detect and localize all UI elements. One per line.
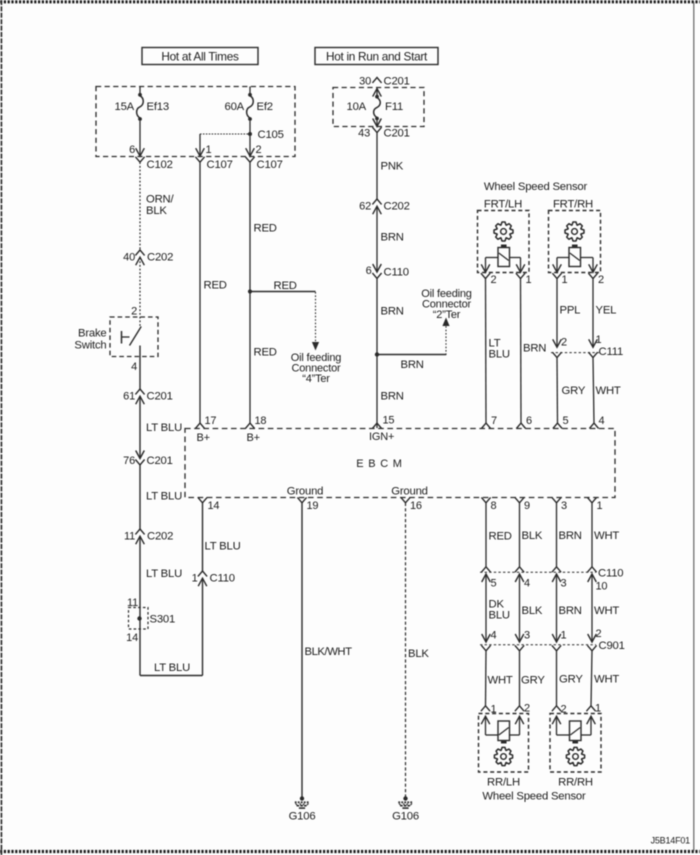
wire BLK to ground G106 <box>406 503 430 797</box>
wire LT BLU EBCM pin 14 to C110 <box>203 503 241 571</box>
svg-text:G106: G106 <box>392 810 419 822</box>
sensor FRT/RH dashed box <box>549 211 601 273</box>
svg-text:WHT: WHT <box>594 605 619 617</box>
svg-text:4: 4 <box>524 578 530 590</box>
connector C201 pin 30 <box>359 75 410 87</box>
svg-text:C110: C110 <box>598 568 623 580</box>
svg-text:C201: C201 <box>147 455 173 467</box>
svg-text:Ground: Ground <box>287 485 323 497</box>
wire LT BLU S301 to junction with pin 14 wire <box>140 629 203 676</box>
connector C110 pin 10 <box>588 574 608 593</box>
svg-text:C105: C105 <box>258 129 284 141</box>
svg-text:16: 16 <box>410 500 422 512</box>
connector C110 pin 6 <box>366 264 409 279</box>
module EBCM dashed box <box>185 429 615 498</box>
wire Ef13 to pin 6 <box>139 121 141 156</box>
svg-text:Switch: Switch <box>74 340 106 352</box>
wire GRY C901 to RR/RH pin 2 <box>552 645 583 705</box>
sensor FRT/RH pin 2 <box>588 273 604 286</box>
svg-text:RED: RED <box>274 280 297 292</box>
sensor RR/RH pin 1 <box>586 703 601 715</box>
svg-text:1: 1 <box>596 334 602 346</box>
wire BLK EBCM pin 9 to C110 <box>520 503 543 567</box>
pin 1 connector C107 <box>195 144 232 171</box>
wire LT BLU FRT/LH to EBCM pin 7 <box>486 279 510 424</box>
connector C110 dashed line lower <box>480 567 623 580</box>
svg-text:WHT: WHT <box>594 530 619 542</box>
label oil feeding connector 4 terminal <box>291 352 341 385</box>
svg-text:GRY: GRY <box>559 674 583 686</box>
svg-text:30: 30 <box>359 75 371 87</box>
svg-text:BRN: BRN <box>401 359 424 371</box>
svg-text:2: 2 <box>598 274 604 286</box>
svg-text:17: 17 <box>205 415 217 427</box>
svg-text:3: 3 <box>561 578 567 590</box>
wire WHT C901 to RR/LH pin 1 <box>481 645 513 705</box>
svg-text:RED: RED <box>204 280 227 292</box>
wire PNK F11 to C202 <box>377 133 404 199</box>
sensor RR/LH pin 2 <box>515 703 530 715</box>
svg-text:19: 19 <box>307 500 319 512</box>
svg-text:LT BLU: LT BLU <box>205 541 241 553</box>
svg-text:BLK: BLK <box>146 205 167 217</box>
svg-text:10: 10 <box>596 581 608 593</box>
svg-text:BLK/WHT: BLK/WHT <box>305 646 353 658</box>
connector C201 pin 61 <box>123 389 173 404</box>
svg-text:3: 3 <box>524 630 530 642</box>
svg-text:C202: C202 <box>384 201 410 213</box>
wire WHT C111 to EBCM pin 4 <box>588 352 621 423</box>
svg-text:PPL: PPL <box>560 305 581 317</box>
svg-text:BRN: BRN <box>559 605 582 617</box>
svg-text:BRN: BRN <box>559 530 582 542</box>
svg-text:6: 6 <box>526 415 532 427</box>
svg-text:B+: B+ <box>247 432 260 444</box>
wire LT BLU C201 to C201 <box>140 396 182 458</box>
svg-text:B+: B+ <box>197 432 210 444</box>
junction node on B+ wire <box>248 289 252 293</box>
svg-text:C110: C110 <box>384 267 409 279</box>
svg-text:1: 1 <box>192 573 198 585</box>
ground G106 left <box>289 796 316 822</box>
svg-text:C202: C202 <box>147 252 173 264</box>
wire C105 branch to pin 1 <box>200 134 248 156</box>
svg-text:BLK: BLK <box>408 648 429 660</box>
label oil feeding connector 2 terminal <box>421 288 471 321</box>
svg-text:F11: F11 <box>385 101 403 113</box>
svg-text:LT BLU: LT BLU <box>146 491 182 503</box>
svg-text:4: 4 <box>491 630 497 642</box>
svg-text:Hot at All Times: Hot at All Times <box>161 49 239 63</box>
sensor FRT/RH gear and coil <box>553 222 598 272</box>
svg-text:C901: C901 <box>599 640 625 652</box>
EBCM pin 18 B+ <box>245 415 266 444</box>
wire LT BLU C202 to splice S301 <box>140 536 182 607</box>
svg-text:1: 1 <box>561 630 567 642</box>
EBCM pin 17 B+ <box>195 415 216 444</box>
connector C111 dashed line <box>551 346 623 358</box>
connector C901 pin 4 <box>482 630 497 643</box>
svg-text:4: 4 <box>131 361 137 373</box>
svg-text:6: 6 <box>129 144 135 156</box>
wire LT BLU C201 to C202 <box>140 465 182 529</box>
svg-text:Wheel Speed Sensor: Wheel Speed Sensor <box>482 791 586 803</box>
wire WHT C901 to RR/RH pin 1 <box>587 645 619 705</box>
svg-text:Brake: Brake <box>78 328 107 340</box>
ground G106 right <box>392 796 419 822</box>
fuse Ef13 15A <box>114 87 168 121</box>
EBCM pin 8 <box>481 497 496 512</box>
connector C110 pin 5 <box>482 574 497 590</box>
sensor RR/RH coil and gear <box>552 716 595 765</box>
svg-text:WHT: WHT <box>596 385 621 397</box>
svg-text:BLU: BLU <box>489 349 510 361</box>
svg-text:RR/RH: RR/RH <box>558 776 593 788</box>
fuse block dashed box <box>96 87 295 157</box>
svg-text:61: 61 <box>123 391 135 403</box>
svg-text:WHT: WHT <box>594 674 619 686</box>
pin 2 connector C107 <box>245 144 282 171</box>
svg-text:BRN: BRN <box>381 306 404 318</box>
svg-text:FRT/LH: FRT/LH <box>484 199 522 211</box>
svg-text:“2”Ter: “2”Ter <box>433 309 461 321</box>
svg-text:Ground: Ground <box>391 485 427 497</box>
wire BLK C110 to C901 <box>520 574 543 642</box>
svg-text:6: 6 <box>366 265 372 277</box>
branch wire BRN to oil feeding connector 2 <box>377 318 450 372</box>
sensor FRT/LH gear and coil <box>481 222 525 272</box>
svg-text:2: 2 <box>491 274 497 286</box>
svg-text:J5B14F01: J5B14F01 <box>651 836 691 846</box>
svg-text:18: 18 <box>255 415 267 427</box>
EBCM pin 4 <box>589 415 604 429</box>
wire PPL FRT/RH to C111 <box>557 279 580 347</box>
EBCM pin 6 <box>516 415 532 429</box>
wire Ef2 to node C105 <box>249 121 251 134</box>
splice S301 <box>126 597 175 644</box>
wire BLK/WHT to ground G106 <box>302 503 352 797</box>
connector C901 pin 3 <box>515 630 530 643</box>
svg-text:“4”Ter: “4”Ter <box>302 373 330 385</box>
connector C202 pin 11 <box>124 529 173 544</box>
wire RED junction to EBCM pin 18 <box>250 294 277 424</box>
svg-text:C111: C111 <box>599 346 624 358</box>
wire C105 to pin 2 <box>249 136 251 156</box>
svg-text:C107: C107 <box>207 159 233 171</box>
wire BRN C202 to C110 <box>377 207 404 272</box>
sensor RR/RH dashed box <box>550 714 601 773</box>
svg-text:14: 14 <box>126 632 138 644</box>
sensor FRT/LH pin 2 <box>481 273 497 286</box>
svg-text:C201: C201 <box>384 75 410 87</box>
svg-text:Wheel Speed Sensor: Wheel Speed Sensor <box>484 181 588 193</box>
svg-text:YEL: YEL <box>596 305 617 317</box>
wire BRN C110 to C901 <box>557 574 582 642</box>
svg-text:5: 5 <box>491 578 497 590</box>
svg-text:9: 9 <box>524 500 530 512</box>
connector C901 dashed line <box>480 640 625 652</box>
svg-text:40: 40 <box>123 252 135 264</box>
svg-text:5: 5 <box>563 415 569 427</box>
svg-text:C201: C201 <box>384 128 410 140</box>
svg-text:C201: C201 <box>147 391 173 403</box>
wire BRN C110 to junction <box>377 278 404 428</box>
svg-text:LT BLU: LT BLU <box>146 422 182 434</box>
svg-text:LT BLU: LT BLU <box>146 568 182 580</box>
svg-text:1: 1 <box>597 500 603 512</box>
connector C202 pin 40 <box>123 250 173 265</box>
svg-text:76: 76 <box>123 455 135 467</box>
EBCM pin 1 <box>587 497 602 512</box>
junction node on IGN wire <box>375 352 379 356</box>
branch wire RED to oil feeding connector 4 <box>250 280 319 351</box>
svg-text:PNK: PNK <box>381 161 404 173</box>
svg-text:1: 1 <box>206 144 212 156</box>
svg-text:1: 1 <box>526 274 532 286</box>
svg-text:2: 2 <box>131 305 137 317</box>
svg-text:IGN+: IGN+ <box>369 431 394 443</box>
svg-text:Ef2: Ef2 <box>257 101 273 113</box>
svg-text:7: 7 <box>491 415 497 427</box>
svg-text:11: 11 <box>124 531 135 543</box>
connector C901 pin 2 <box>588 628 602 642</box>
svg-text:BLK: BLK <box>522 530 543 542</box>
connector C110 pin 4 <box>515 574 530 590</box>
node C105 junction <box>248 129 284 141</box>
svg-text:C102: C102 <box>147 159 173 171</box>
svg-text:14: 14 <box>208 500 220 512</box>
svg-text:8: 8 <box>491 500 497 512</box>
svg-text:Hot in Run and Start: Hot in Run and Start <box>326 49 428 63</box>
fuse block F11 dashed box <box>333 88 424 127</box>
wire YEL FRT/RH to C111 <box>593 279 616 347</box>
connector C111 pin 1 <box>589 334 602 347</box>
wire brake switch pin 4 to C201 <box>131 346 140 390</box>
svg-text:GRY: GRY <box>562 385 586 397</box>
svg-text:2: 2 <box>524 703 530 715</box>
svg-text:2: 2 <box>596 628 602 640</box>
wire BRN FRT/LH to EBCM pin 6 <box>521 279 547 424</box>
sensor RR/LH pin 1 <box>481 704 497 716</box>
wire to brake switch pin 2 <box>131 258 140 328</box>
svg-text:15: 15 <box>383 415 395 427</box>
svg-text:3: 3 <box>561 500 567 512</box>
svg-text:C107: C107 <box>257 159 283 171</box>
connector C110 pin 3 <box>552 574 566 590</box>
connector C202 pin 62 <box>359 199 410 214</box>
svg-text:62: 62 <box>359 201 371 213</box>
fuse F11 10A <box>346 89 403 127</box>
svg-text:BRN: BRN <box>381 232 404 244</box>
svg-text:Ef13: Ef13 <box>147 101 169 113</box>
brake switch S/W dashed box <box>110 317 158 357</box>
svg-text:C110: C110 <box>210 573 235 585</box>
connector C201 pin 43 <box>358 119 410 140</box>
svg-text:G106: G106 <box>289 810 316 822</box>
EBCM pin 7 <box>481 415 497 429</box>
sensor RR/LH coil and gear <box>481 716 524 765</box>
svg-text:S301: S301 <box>150 614 176 626</box>
label Brake Switch <box>74 328 106 352</box>
svg-text:RED: RED <box>254 223 277 235</box>
svg-text:60A: 60A <box>224 101 244 113</box>
svg-text:BRN: BRN <box>523 343 546 355</box>
wire GRY C901 to RR/LH pin 2 <box>515 645 545 705</box>
wire RED C107 to EBCM pin 17 <box>200 162 227 423</box>
svg-text:BLU: BLU <box>489 610 510 622</box>
svg-text:2: 2 <box>561 337 567 349</box>
EBCM pin 16 Ground <box>391 485 427 512</box>
svg-text:BLK: BLK <box>522 605 543 617</box>
wire RED C107 to junction <box>250 162 277 291</box>
svg-text:4: 4 <box>599 415 605 427</box>
pin 6 connector C102 <box>129 144 173 171</box>
connector C111 pin 2 <box>553 337 567 349</box>
wire WHT EBCM pin 1 to C110 <box>592 503 619 567</box>
svg-text:RR/LH: RR/LH <box>487 776 520 788</box>
EBCM pin 3 <box>552 497 567 512</box>
sensor FRT/RH pin 1 <box>552 273 567 286</box>
connector C901 pin 1 <box>552 630 566 643</box>
connector C201 pin 76 <box>123 451 173 468</box>
wire WHT C110 to C901 <box>592 574 619 642</box>
wire DK BLU C110 to C901 <box>486 574 510 642</box>
svg-text:1: 1 <box>562 274 568 286</box>
svg-text:15A: 15A <box>114 101 134 113</box>
svg-text:1: 1 <box>595 703 601 715</box>
EBCM pin 9 <box>515 497 530 512</box>
sensor FRT/LH dashed box <box>478 211 530 273</box>
header box: Hot in Run and Start <box>315 48 438 65</box>
svg-text:RED: RED <box>489 531 512 543</box>
sensor FRT/LH pin 1 <box>516 273 532 286</box>
svg-text:WHT: WHT <box>488 675 513 687</box>
svg-text:LT BLU: LT BLU <box>154 662 190 674</box>
svg-text:E B C M: E B C M <box>356 458 403 470</box>
svg-text:2: 2 <box>256 144 262 156</box>
svg-text:ORN/: ORN/ <box>146 194 175 206</box>
connector C110 pin 1 <box>192 571 235 586</box>
svg-text:GRY: GRY <box>521 675 545 687</box>
svg-text:43: 43 <box>358 128 370 140</box>
svg-text:FRT/RH: FRT/RH <box>553 199 593 211</box>
EBCM pin 15 IGN+ <box>369 415 394 443</box>
header box: Hot at All Times <box>142 48 258 65</box>
wire RED EBCM pin 8 to C110 <box>486 503 512 567</box>
wire GRY C111 to EBCM pin 5 <box>552 352 585 423</box>
svg-text:RED: RED <box>254 347 277 359</box>
wire ORN/BLK C102 to C202 <box>140 162 175 250</box>
sensor RR/RH pin 2 <box>552 704 567 716</box>
EBCM pin 14 <box>198 497 220 512</box>
brake switch contacts <box>122 327 142 346</box>
EBCM pin 5 <box>553 415 569 429</box>
fuse Ef2 60A <box>224 87 272 121</box>
sensor RR/LH dashed box <box>479 714 529 773</box>
EBCM pin 19 Ground <box>287 485 323 512</box>
wire BRN EBCM pin 3 to C110 <box>557 503 582 567</box>
svg-text:10A: 10A <box>346 101 366 113</box>
svg-text:BRN: BRN <box>381 391 404 403</box>
svg-text:C202: C202 <box>147 531 173 543</box>
wire LT BLU C110 to junction <box>202 578 204 675</box>
